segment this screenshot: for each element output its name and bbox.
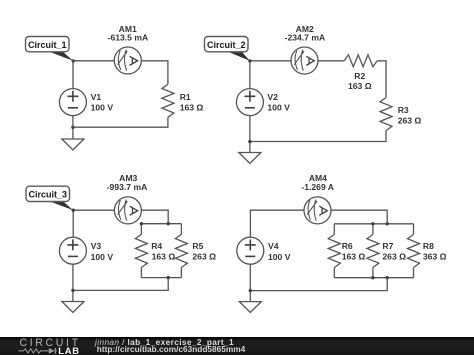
svg-text:V4: V4 <box>268 241 279 251</box>
wire R4 top lead <box>140 224 142 235</box>
junction rail3 top feed <box>167 222 170 225</box>
svg-text:100 V: 100 V <box>91 252 114 262</box>
svg-text:R7: R7 <box>382 241 393 251</box>
wire node2 to AM2 left <box>250 60 291 62</box>
wire V2 bottom to ground stem <box>249 116 251 153</box>
svg-text:263 Ω: 263 Ω <box>382 252 406 262</box>
wire node1 to AM1 left <box>73 60 114 62</box>
CircuitLab logo <box>0 337 90 355</box>
wire AM4 right corner down to rail4 top <box>331 210 387 224</box>
junction node2 <box>248 59 251 62</box>
wire R6 top lead <box>333 224 335 235</box>
junction V2 bottom <box>248 140 251 143</box>
net label Circuit_3 box <box>26 186 70 201</box>
svg-text:-1.269 A: -1.269 A <box>301 182 334 192</box>
wire rail3 drop to bottom wire <box>73 278 168 291</box>
wire node2 down to V2 top <box>249 61 251 89</box>
resistor R1 <box>162 84 174 117</box>
svg-text:-234.7 mA: -234.7 mA <box>285 33 326 43</box>
ground GND2 <box>239 153 261 164</box>
svg-text:R3: R3 <box>398 105 409 115</box>
wire V4 top corner to AM4 left <box>250 210 304 237</box>
net label Circuit_1 box <box>26 37 70 52</box>
wire R3 bottom to bottom rail <box>250 131 386 142</box>
resistor R5 <box>175 234 187 267</box>
svg-text:R8: R8 <box>423 241 434 251</box>
net label Circuit_3 flag pointer <box>46 200 73 210</box>
wire V1 bottom to ground stem <box>72 116 74 139</box>
svg-text:-993.7 mA: -993.7 mA <box>107 182 148 192</box>
ground GND3 <box>62 302 84 313</box>
svg-text:R4: R4 <box>151 241 162 251</box>
junction R7 bottom <box>371 276 374 279</box>
wire node1 down to V1 top <box>72 61 74 89</box>
svg-text:163 Ω: 163 Ω <box>152 252 176 262</box>
junction node1 <box>72 59 75 62</box>
wire rail3 top <box>141 223 181 225</box>
footer credit line <box>95 339 245 354</box>
wire R8 bottom lead <box>413 268 415 278</box>
wire R4 bottom lead <box>140 267 142 277</box>
junction V3 bottom <box>71 289 74 292</box>
svg-text:100 V: 100 V <box>267 103 290 113</box>
wire AM3 right corner down to rail3 top <box>141 210 168 224</box>
svg-text:100 V: 100 V <box>91 103 114 113</box>
junction V4 bottom <box>249 289 252 292</box>
ammeter AM1 <box>114 47 141 74</box>
junction rail4 top feed <box>386 222 389 225</box>
wire R7 top lead <box>372 224 374 235</box>
wire R1 bottom to bottom rail <box>73 117 168 127</box>
svg-text:100 V: 100 V <box>268 252 291 262</box>
resistor R6 <box>328 235 340 268</box>
svg-text:163 Ω: 163 Ω <box>348 81 372 91</box>
wire V3 bottom to ground stem <box>72 264 74 301</box>
net label Circuit_1 flag pointer <box>46 50 74 61</box>
svg-text:LAB: LAB <box>58 345 79 355</box>
wire node3 to AM3 left <box>73 209 114 211</box>
svg-text:V2: V2 <box>267 92 278 102</box>
wire R2 right corner down to R3 top <box>377 61 386 98</box>
svg-text:Circuit_1: Circuit_1 <box>28 40 67 50</box>
ammeter AM2 <box>291 47 318 74</box>
net label Circuit_2 box <box>205 37 249 52</box>
voltage source V2 <box>236 89 263 116</box>
svg-text:R1: R1 <box>180 92 191 102</box>
net label Circuit_2 flag pointer <box>225 50 250 61</box>
svg-text:R2: R2 <box>354 71 365 81</box>
ground GND1 <box>62 139 84 150</box>
svg-text:263 Ω: 263 Ω <box>398 116 422 126</box>
wire rail4 drop to bottom wire <box>250 278 387 291</box>
wire AM1 right to R1 corner <box>141 61 168 85</box>
junction R7 top <box>371 222 374 225</box>
wire rail4 bottom <box>334 277 413 279</box>
voltage source V4 <box>237 237 264 264</box>
wire rail4 top <box>334 223 413 225</box>
wire rail3 bottom <box>141 277 181 279</box>
junction V1 bottom <box>71 126 74 129</box>
resistor R3 <box>380 98 392 131</box>
voltage source V3 <box>59 237 86 264</box>
svg-text:Circuit_2: Circuit_2 <box>207 40 246 50</box>
resistor R7 <box>367 235 379 268</box>
svg-text:V1: V1 <box>91 92 102 102</box>
logo resistor zigzag <box>19 349 46 353</box>
svg-text:R5: R5 <box>192 241 203 251</box>
svg-text:-613.5 mA: -613.5 mA <box>108 33 149 43</box>
resistor R2 <box>344 55 377 67</box>
junction R4 top <box>140 222 143 225</box>
resistor R4 <box>135 234 147 267</box>
wire R5 top lead <box>180 224 182 235</box>
svg-text:263 Ω: 263 Ω <box>192 252 216 262</box>
wire node3 down to V3 top <box>72 210 74 237</box>
wire R6 bottom lead <box>333 268 335 278</box>
svg-text:163 Ω: 163 Ω <box>342 252 366 262</box>
junction rail3 bottom <box>167 276 170 279</box>
svg-text:V3: V3 <box>91 241 102 251</box>
wire R5 bottom lead <box>180 267 182 277</box>
logo diode symbol <box>49 348 55 354</box>
ammeter AM3 <box>114 197 141 224</box>
junction rail4 bottom feed <box>386 276 389 279</box>
resistor R8 <box>408 235 420 268</box>
svg-text:R6: R6 <box>342 241 353 251</box>
svg-text:363 Ω: 363 Ω <box>423 252 447 262</box>
svg-text:163 Ω: 163 Ω <box>180 103 204 113</box>
wire V4 bottom to ground stem <box>249 264 251 301</box>
wire R8 top lead <box>413 224 415 235</box>
svg-text:Circuit_3: Circuit_3 <box>28 190 67 200</box>
ammeter AM4 <box>304 197 331 224</box>
wire R7 bottom lead <box>372 268 374 278</box>
voltage source V1 <box>59 89 86 116</box>
ground GND4 <box>239 302 261 313</box>
junction node3 <box>72 209 75 212</box>
wire AM2 right to R2 left <box>318 60 344 62</box>
